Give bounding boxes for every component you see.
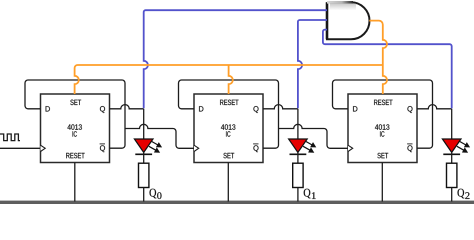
wire Qbar of U2 to CLK of U3 (hop over LED wire): [279, 124, 349, 148]
wire node Q0 down to LED D1: [143, 109, 145, 140]
U2 pin/value labels: [199, 100, 258, 159]
LED D2 triangle: [289, 139, 308, 152]
wire U3 Q output to node Q2 (hop over feedback): [417, 105, 452, 109]
wire node Q0 to and-gate input 1 (blue, hop over orange): [144, 10, 327, 108]
U2 clock chevron: [194, 145, 199, 151]
node label Q0: [150, 189, 162, 199]
wire resistor R1 to ground: [143, 188, 145, 202]
flip-flop U1 4013 IC body: [41, 94, 110, 163]
U3 clock chevron: [348, 145, 353, 151]
flip-flop U3 4013 IC body: [348, 94, 417, 163]
LED D3 light emission arrows: [457, 141, 470, 153]
and-gate U4 body: [327, 2, 370, 39]
LED D1 light emission arrows: [149, 141, 162, 153]
wire node Q1 to and-gate input 2 (blue, hop over orange): [298, 20, 327, 108]
wire LED D2 to resistor R2: [297, 152, 299, 163]
wire node Q2 to and-gate input 3 (blue): [323, 30, 452, 109]
wire U1 RESET pin to ground: [74, 163, 76, 202]
node label Q2: [458, 189, 470, 199]
wire U1 feedback loop Qbar to D: [25, 80, 125, 148]
wire resistor R3 to ground: [451, 188, 453, 202]
LED D2 light emission arrows: [303, 141, 316, 153]
U1 pin/value labels: [46, 100, 105, 159]
LED D1 cathode bar: [135, 153, 152, 155]
wire U3 SET pin to ground: [381, 163, 383, 202]
U1 clock chevron: [41, 145, 46, 151]
clock square-wave symbol: [0, 134, 20, 141]
node label Q1: [304, 189, 316, 199]
wire U1 Q output to node Q0 (hop over feedback): [110, 105, 144, 109]
LED D3 triangle: [442, 139, 461, 152]
wire and-gate output to FF3 RESET pin (orange, hops over blue and loop): [369, 21, 387, 94]
wire node Q2 down to LED D3: [451, 109, 453, 140]
wire LED D1 to resistor R1: [143, 152, 145, 163]
LED D1 triangle: [134, 139, 153, 152]
wire LED D3 to resistor R3: [451, 152, 453, 163]
ground bus rail: [0, 201, 474, 204]
LED D2 cathode bar: [290, 153, 307, 155]
wire Qbar of U1 to CLK of U2 (hop over LED wire): [125, 124, 194, 148]
U3 pin/value labels: [353, 100, 412, 159]
wire resistor R2 to ground: [297, 188, 299, 202]
wire U3 feedback loop Qbar to D: [333, 80, 433, 148]
resistor R1: [139, 163, 149, 187]
wire U2 feedback loop Qbar to D: [179, 80, 279, 148]
wire clock to FF1 CLK: [0, 147, 41, 149]
LED D3 cathode bar: [443, 153, 460, 155]
orange drop to FF2 RESET pin (hop over FF2 loop): [229, 65, 233, 94]
wire U2 Q output to node Q1 (hop over feedback): [263, 105, 298, 109]
wire node Q1 down to LED D2: [297, 109, 299, 140]
wire U2 SET pin to ground: [227, 163, 229, 202]
flip-flop U2 4013 IC body: [194, 94, 263, 163]
orange reset rail to FF1 SET pin (hop over FF1 loop): [75, 65, 383, 94]
resistor R2: [293, 163, 303, 187]
resistor R3: [447, 163, 457, 187]
